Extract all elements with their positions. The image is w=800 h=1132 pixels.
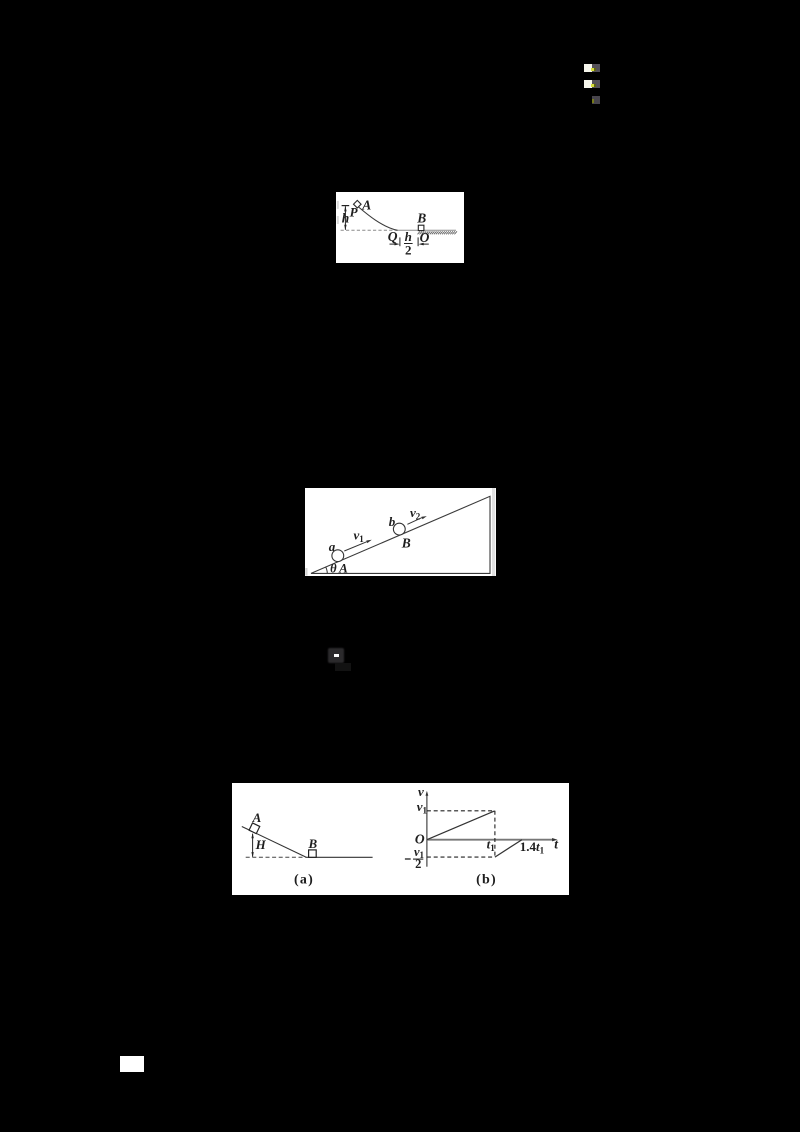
- figure 3 white panel: [232, 783, 569, 895]
- right edge shading: [492, 488, 495, 576]
- (a) H arrow: [251, 834, 253, 857]
- svg-text:2: 2: [405, 242, 412, 257]
- dim bar right: [417, 237, 419, 246]
- svg-text:t: t: [554, 837, 559, 852]
- svg-text:2: 2: [415, 857, 421, 871]
- svg-text:O: O: [419, 230, 429, 245]
- (b) dashed vertical t1: [493, 811, 495, 857]
- (a) block B: [308, 850, 316, 857]
- icon row2 gray square: [592, 80, 600, 88]
- icon row3 gray square: [592, 96, 600, 104]
- v1 velocity arrow: [344, 541, 367, 551]
- icon row3 olive mark: [592, 99, 594, 103]
- left edge tick: [305, 568, 307, 576]
- icon row1 olive mark: [594, 68, 596, 71]
- (b) rising line: [426, 811, 494, 840]
- svg-text:v2: v2: [410, 505, 421, 522]
- icon row2 olive mark: [594, 84, 596, 87]
- svg-text:A: A: [251, 810, 261, 825]
- (b) dashed -v1/2 level: [426, 856, 494, 858]
- figure 2 white panel: [305, 488, 496, 576]
- svg-text:h: h: [341, 210, 349, 225]
- svg-text:θ: θ: [330, 561, 337, 575]
- svg-text:P: P: [349, 204, 358, 219]
- svg-text:v1: v1: [353, 527, 364, 544]
- angle arc: [325, 566, 327, 573]
- block A diamond: [353, 200, 361, 208]
- gray artifact blob: [328, 648, 345, 664]
- dim bar left: [399, 237, 401, 246]
- (a) dashed ground: [245, 857, 305, 859]
- h dimension arrow: [344, 206, 346, 230]
- svg-text:B: B: [307, 836, 317, 851]
- ball a: [331, 549, 343, 561]
- (b) dashed v1 level: [426, 810, 494, 812]
- bottom-left white rectangle: [120, 1056, 144, 1072]
- (b) fraction bar: [412, 858, 422, 860]
- incline triangle: [311, 496, 490, 573]
- h dimension tick top: [341, 204, 349, 206]
- icon row1 gray square: [592, 64, 600, 72]
- curve ramp PQ: [358, 207, 397, 230]
- svg-text:H: H: [254, 837, 266, 852]
- (a) incline line: [241, 827, 305, 858]
- svg-text:v: v: [417, 784, 423, 799]
- (b) v axis: [425, 793, 427, 867]
- ground hatching: [417, 231, 457, 234]
- svg-text:1.4t1: 1.4t1: [519, 839, 544, 855]
- figure 1 white panel: [336, 192, 464, 264]
- svg-text:A: A: [338, 560, 348, 575]
- svg-text:A: A: [361, 197, 371, 212]
- (a) block A: [249, 823, 260, 834]
- svg-text:b: b: [388, 513, 395, 528]
- icon row1 yellow mark: [591, 68, 594, 71]
- icon row2 yellow mark: [591, 84, 594, 87]
- white bar in blob: [334, 654, 339, 657]
- (a) solid ground: [306, 857, 373, 859]
- v2 velocity arrow: [407, 517, 422, 524]
- svg-text:Q: Q: [387, 229, 397, 244]
- solid baseline right: [396, 229, 456, 231]
- (b) minus sign: [404, 858, 410, 860]
- svg-text:B: B: [416, 210, 426, 225]
- edge tick marks: [336, 201, 338, 209]
- icon row1 white square: [584, 64, 593, 72]
- svg-text:a: a: [328, 538, 335, 553]
- dashed baseline left: [340, 229, 395, 231]
- dim arrow right: [422, 243, 428, 245]
- svg-text:v1: v1: [416, 799, 427, 815]
- svg-text:(b): (b): [476, 873, 497, 888]
- dim arrow left: [389, 243, 395, 245]
- ball b: [393, 523, 405, 535]
- (b) recovery line: [494, 840, 521, 857]
- (b) t axis: [426, 839, 553, 841]
- icon row2 white square: [584, 80, 593, 88]
- block B square: [418, 225, 424, 230]
- svg-text:(a): (a): [294, 873, 314, 888]
- svg-text:B: B: [400, 535, 410, 550]
